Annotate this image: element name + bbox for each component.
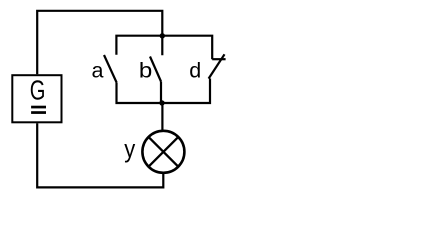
svg-text:d: d [189,59,201,83]
svg-text:b: b [139,58,152,82]
svg-text:a: a [92,59,104,83]
svg-text:G: G [30,75,46,106]
svg-text:y: y [124,136,135,164]
